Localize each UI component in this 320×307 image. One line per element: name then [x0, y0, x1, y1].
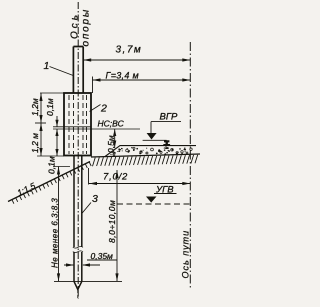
svg-text:1,2м: 1,2м — [30, 98, 40, 116]
level line y126.8 — [53, 126, 91, 128]
level line y166.5 — [53, 166, 70, 168]
leader and label 2 — [90, 105, 101, 112]
svg-text:опоры: опоры — [81, 8, 92, 47]
label 1,2м top (rotated) — [30, 98, 40, 116]
dimension 8,0:10,0м — [115, 170, 118, 281]
svg-text:0,1м: 0,1м — [45, 98, 55, 116]
svg-text:Ось: Ось — [70, 12, 81, 39]
label опоры (rotated) — [81, 8, 92, 47]
dimension 0,5м — [113, 129, 116, 148]
ВГР annotation — [143, 122, 181, 141]
level line y93 — [40, 92, 64, 94]
pile (свая, item 3) — [74, 156, 82, 290]
level line y156 — [37, 155, 64, 157]
pile break symbol — [73, 247, 83, 253]
leader and label 3 — [82, 203, 91, 214]
svg-text:Ось пути: Ось пути — [181, 230, 191, 279]
label 0,1м lower (rotated) — [47, 156, 57, 174]
svg-text:НС;ВС: НС;ВС — [98, 119, 125, 129]
svg-text:1,2 м: 1,2 м — [30, 133, 40, 153]
dimension Г=3,4м — [93, 77, 191, 94]
svg-text:0,35м: 0,35м — [91, 251, 114, 261]
label 0,5м (rotated) — [106, 135, 116, 153]
svg-text:Г=3,4 м: Г=3,4 м — [106, 71, 139, 81]
svg-text:УГВ: УГВ — [155, 185, 174, 196]
ballast prism — [105, 146, 196, 157]
label 1,2 м bottom (rotated) — [30, 133, 40, 153]
bottom extension line — [54, 280, 122, 282]
rail section — [163, 140, 171, 145]
dimension 7,0/2 — [89, 168, 191, 185]
label Ось пути (rotated) — [181, 230, 191, 279]
ballast circles — [113, 147, 192, 156]
dimension 0,35м — [64, 260, 117, 267]
УГВ annotation — [146, 194, 177, 203]
svg-text:3,7м: 3,7м — [116, 45, 143, 56]
svg-text:0,1м: 0,1м — [47, 156, 57, 174]
level line y129 — [53, 128, 140, 130]
svg-text:3: 3 — [92, 193, 98, 205]
leader and label 1 — [50, 67, 74, 76]
left dim line 1,2м chain — [35, 93, 46, 156]
pile tip — [74, 281, 82, 289]
centerline dashes below tip — [77, 290, 79, 299]
foundation (фундамент, item 2) — [64, 93, 91, 156]
pole U1 (опора, item 1) — [73, 47, 83, 94]
label НС;ВС — [98, 119, 125, 129]
label 8,0:10,0м (rotated) — [107, 200, 117, 243]
embankment slope line 1:1,5 — [8, 162, 90, 202]
svg-text:ВГР: ВГР — [160, 112, 179, 123]
label 0,1м top (rotated) — [45, 98, 55, 116]
small dim line 0,1м chain — [55, 116, 58, 156]
dim line Не менее 6,3;8,3 — [57, 167, 60, 282]
groundwater dashed line — [117, 203, 190, 205]
svg-text:0,5м: 0,5м — [106, 135, 116, 153]
pole axis centerline (ось опоры) — [77, 2, 79, 299]
dimension 3,7м — [83, 58, 190, 61]
ballast dots — [110, 147, 186, 155]
svg-text:Не менее 6,3;8,3: Не менее 6,3;8,3 — [51, 198, 60, 268]
label 1:1,5 (rotated along slope) — [15, 180, 37, 197]
foundation hidden dashed lines — [69, 95, 87, 154]
ground hatching right — [93, 155, 198, 167]
ground line right side — [91, 154, 200, 157]
label Ось (rotated) — [70, 12, 81, 39]
slope hatching — [12, 162, 91, 204]
svg-text:8,0÷10,0м: 8,0÷10,0м — [107, 200, 117, 243]
svg-text:1: 1 — [44, 60, 50, 72]
svg-text:7,0/2: 7,0/2 — [103, 172, 128, 183]
label Не менее 6,3;8,3 (rotated) — [51, 198, 60, 268]
track axis line (ось пути) — [189, 42, 191, 288]
svg-text:2: 2 — [100, 103, 107, 115]
